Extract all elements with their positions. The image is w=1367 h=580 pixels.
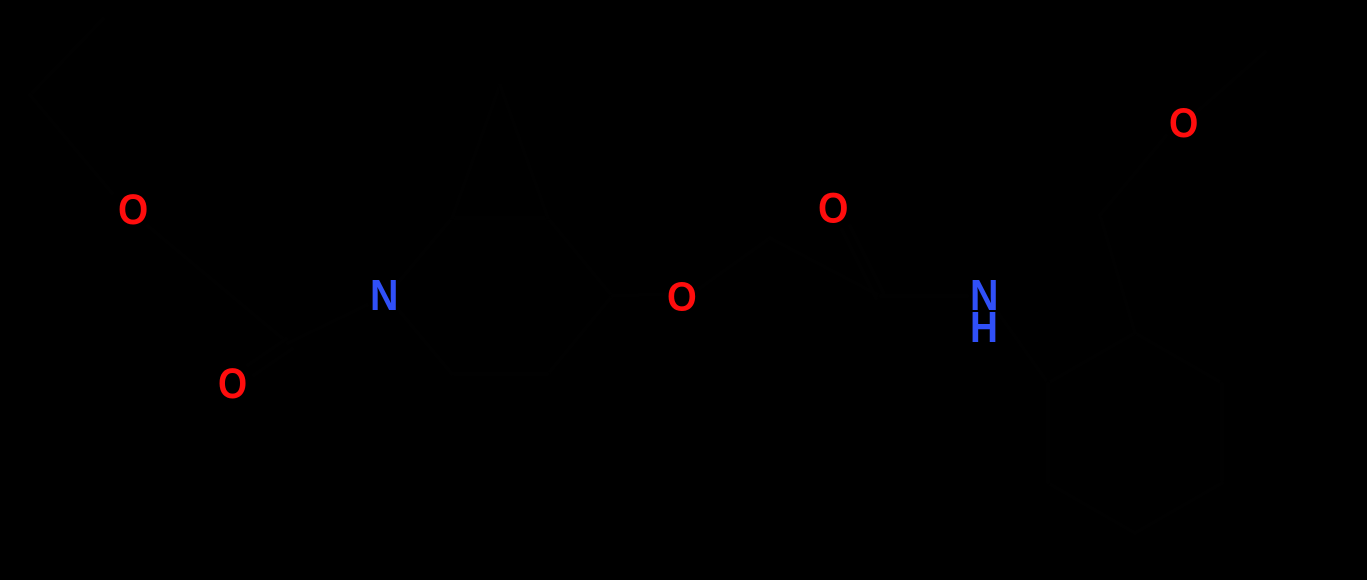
bond: CH2 to amide carbonyl carbon bbox=[770, 238, 880, 296]
atom H (amide hydrogen on N) bbox=[970, 307, 998, 350]
atom O (carbonyl oxygen of left amide C=O) bbox=[218, 363, 247, 406]
bond: ring C3 to ring C4 bbox=[548, 218, 612, 296]
bond: right ring C6-C1 bbox=[1046, 383, 1050, 483]
bond: O3 to methylene CH2 bbox=[700, 238, 770, 288]
bond: ring C5 to ring C6 bbox=[452, 372, 548, 376]
atom O (amide carbonyl oxygen) bbox=[818, 188, 848, 230]
bond: right ring C2 to chain CH bbox=[1100, 215, 1135, 333]
bond: acyl C=O2 carbonyl double bond line 2 bbox=[254, 349, 292, 375]
bond: N2-H nitrogen to benzylic CH bbox=[999, 314, 1048, 383]
bond: ring C4 to ring C5 bbox=[548, 296, 612, 374]
bond: ring C4 to ether oxygen O3 bbox=[612, 294, 666, 296]
atom O (methoxy oxygen, right aryl ether) bbox=[1169, 103, 1198, 145]
bond: right ring C2-C3 bbox=[1135, 333, 1222, 383]
bond: right ring C3-C4 bbox=[1220, 383, 1224, 483]
bond: CH3 terminal methyl stub (top-left) bbox=[30, 19, 103, 95]
atom O (methoxy oxygen, left methyl ether) bbox=[118, 189, 148, 232]
bond: amide C=O4 double bond line 1 bbox=[850, 226, 884, 294]
bond: right ring C4-C5 bbox=[1135, 483, 1222, 533]
bond: O5 to terminal methyl (top-right) bbox=[1199, 52, 1265, 110]
bond: ring C2 to ring C3 bbox=[452, 216, 548, 220]
bond: bicyclic bridge right arm bbox=[500, 85, 548, 218]
bond: chain CH to methoxy oxygen O5 bbox=[1100, 136, 1166, 215]
bond: right ring C1-C2 bbox=[1048, 333, 1135, 383]
bond: amide carbon to amide nitrogen N2 bbox=[880, 294, 968, 298]
bond: O1 to acyl carbon bbox=[148, 226, 288, 343]
atom O (central ether oxygen) bbox=[667, 277, 697, 318]
bond: acyl carbon to ring nitrogen N1 bbox=[288, 305, 367, 343]
bond: methyl carbon to ether oxygen O1 bbox=[30, 95, 112, 193]
atom N (amide N-H nitrogen) bbox=[970, 275, 998, 318]
bond: bicyclic bridge left arm bbox=[452, 85, 500, 218]
bond: right ring C5-C6 bbox=[1048, 483, 1135, 533]
bond: acyl C=O2 carbonyl double bond line 1 bbox=[248, 339, 286, 365]
bond: ring N1 to ring C2 bbox=[397, 218, 452, 284]
atom N (ring nitrogen of azabicycle) bbox=[370, 275, 398, 318]
bond: ring C6 to ring N1 bbox=[397, 308, 452, 374]
bond: amide C=O4 double bond line 2 bbox=[842, 230, 876, 298]
